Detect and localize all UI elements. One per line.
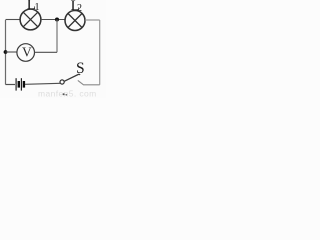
node junction top (between L1 and L2) (55, 18, 59, 22)
wire bottom-right from bus to switch contact (78, 80, 100, 84)
wire from voltmeter to vertical branch (35, 51, 58, 53)
wire right bus (99, 20, 101, 85)
svg-text:2: 2 (77, 3, 82, 14)
svg-text:V: V (22, 45, 32, 60)
wire top between L1 and L2 (41, 19, 65, 21)
lamp L2 (65, 11, 85, 31)
wire from battery to switch pivot (25, 83, 60, 84)
lamp L1 (20, 9, 41, 30)
wire bottom-left from bus to battery (6, 84, 16, 86)
wire top-left from bus to L1 (6, 19, 21, 21)
voltmeter U1 (17, 44, 35, 62)
wire top-right from L2 to right bus (85, 19, 100, 21)
switch S pivot (60, 80, 64, 84)
watermark dark dots (63, 93, 65, 95)
wire left bus (5, 20, 7, 85)
svg-text:S: S (76, 60, 85, 77)
wire from bus to voltmeter (6, 51, 18, 53)
wire vertical from top node down to voltmeter branch (56, 20, 58, 53)
node voltmeter left junction on bus (4, 50, 8, 54)
switch S lever (64, 74, 80, 81)
battery BT1 (16, 78, 24, 90)
svg-text:manfen5. com: manfen5. com (38, 89, 97, 99)
svg-text:1: 1 (35, 2, 40, 13)
